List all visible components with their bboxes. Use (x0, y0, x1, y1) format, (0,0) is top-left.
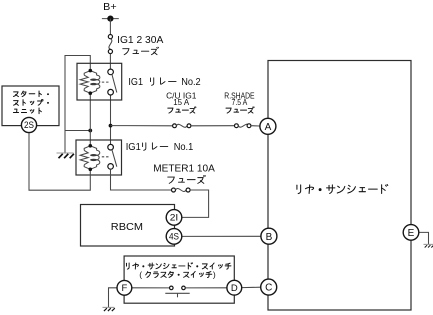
label fuse (katakana) top (123, 47, 159, 55)
connector 2I (166, 210, 182, 226)
connector F (117, 280, 132, 295)
svg-text:B+: B+ (103, 1, 116, 13)
wire 4S to B (182, 235, 261, 237)
wire F to ground (109, 288, 118, 307)
svg-text:A: A (265, 122, 272, 133)
svg-text:RBCM: RBCM (111, 222, 143, 233)
label relay1 katakana (143, 143, 168, 151)
svg-text:F: F (121, 283, 127, 294)
svg-text:No.1: No.1 (174, 142, 194, 153)
svg-text:METER1 10A: METER1 10A (153, 164, 215, 175)
relay No.2 coil (84, 71, 90, 76)
wire fuse to relay2 switch (109, 54, 111, 70)
svg-text:15 A: 15 A (173, 98, 189, 107)
svg-text:D: D (231, 283, 238, 294)
wire F to switch terminal (132, 287, 170, 289)
svg-text:B: B (266, 232, 273, 243)
relay No.1 switch contacts (108, 144, 114, 150)
node B+ (102, 18, 119, 20)
ground G1 (57, 153, 74, 158)
junction dot coil bus (88, 129, 92, 133)
svg-text:IG1: IG1 (128, 77, 143, 88)
label relay2 katakana (151, 78, 177, 86)
connector B (261, 228, 277, 244)
wire relay2 coil top stub to left rail and ground (65, 56, 90, 153)
fuse C/U IG1 15A (173, 124, 191, 128)
label start line1 (14, 91, 49, 97)
svg-text:(: ( (139, 269, 142, 279)
label fuse katakana R.SHADE (226, 107, 254, 113)
junction dot switch bus (109, 124, 113, 128)
connector 2S (21, 117, 36, 132)
connector 4S (166, 229, 182, 245)
svg-text:IG1: IG1 (126, 142, 141, 153)
relay No.1 coil (84, 146, 90, 151)
connector A (260, 118, 276, 134)
wire switch terminal to D (185, 287, 227, 289)
ground G3 (103, 307, 115, 311)
wire switch bus relay2 to relay1 (110, 95, 112, 144)
svg-text:E: E (408, 228, 415, 239)
wire coil bus relay2 to relay1 (89, 95, 91, 144)
start-stop unit box (2, 86, 59, 126)
label unit line3 (13, 108, 41, 114)
connector E (403, 225, 419, 241)
wire METER1 fuse to 2I (182, 190, 209, 217)
fuse METER1 10A (172, 188, 191, 192)
svg-text:No.2: No.2 (181, 77, 201, 88)
fuse IG1 2 30A (108, 35, 112, 54)
svg-text:IG1 2 30A: IG1 2 30A (117, 35, 163, 46)
wire to fuse C/U IG1 (111, 125, 173, 127)
wire between fuses (191, 125, 235, 127)
switch unit box (124, 256, 234, 303)
connector C (261, 279, 277, 295)
wire fuse to connector A (251, 125, 260, 127)
label fuse katakana METER1 (168, 175, 206, 183)
label rear sunshade (297, 184, 388, 193)
label switch line1 (126, 263, 230, 269)
wire relay1 switch to METER1 fuse (111, 169, 172, 190)
svg-text:7.5 A: 7.5 A (232, 98, 248, 107)
svg-text:2S: 2S (24, 120, 34, 130)
connector D (227, 280, 242, 295)
label switch line2 katakana (146, 271, 212, 277)
label stop line2 (14, 99, 49, 105)
svg-text:2I: 2I (170, 213, 179, 223)
wire 2S to relay1 coil (29, 133, 90, 191)
svg-text:4S: 4S (169, 232, 179, 242)
fuse R.SHADE 7.5A (235, 124, 251, 128)
svg-text:): ) (213, 269, 216, 279)
svg-text:C: C (265, 283, 272, 294)
switch contact (cluster switch) (165, 286, 189, 297)
relay IG1 No.2 box (77, 63, 122, 100)
relay No.2 switch contacts (108, 69, 114, 75)
wire D to C (242, 286, 261, 288)
label fuse katakana C/U (168, 107, 196, 113)
wire junction branch y130.5 (65, 130, 90, 132)
ground G2 (424, 244, 433, 247)
relay IG1 No.1 box (76, 140, 122, 175)
RBCM box (81, 205, 175, 247)
wire B+ to fuse IG1 2 (109, 19, 111, 35)
rear sunshade box (268, 61, 411, 311)
wire E to ground (419, 232, 429, 244)
